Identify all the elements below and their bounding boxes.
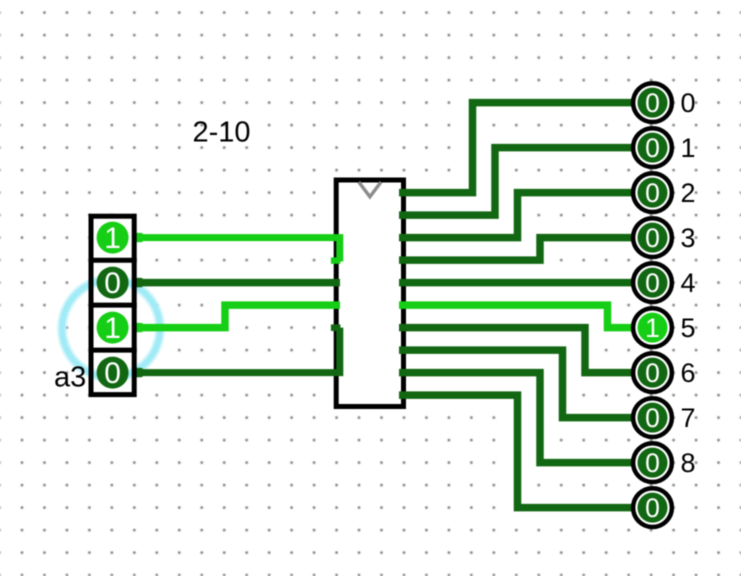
output pin 2 [633, 173, 672, 212]
svg-text:4: 4 [681, 268, 696, 298]
output pin 1 [633, 128, 672, 167]
node a1 wire start [135, 278, 144, 287]
node chip in4 stub [331, 324, 341, 331]
output pin 3 [633, 218, 672, 257]
output pin 9 [633, 488, 672, 527]
input pin 4 value 0 [97, 357, 129, 389]
output pin 8 [633, 443, 672, 482]
wire out6 chip to output pin 6 [399, 328, 634, 373]
svg-text:a3: a3 [54, 361, 86, 393]
svg-text:1: 1 [681, 133, 696, 163]
wire out7 chip to output pin 7 [399, 350, 634, 418]
wire a1 (value 0) from input pin 2 to chip in2 [135, 279, 340, 287]
svg-text:0: 0 [645, 133, 660, 163]
input pin 3 value 1 [97, 312, 129, 344]
svg-text:0: 0 [645, 358, 660, 388]
input pin 2 value 0 [97, 267, 129, 299]
wire a2 (value 1) from input pin 3 jog up to chip in3 [135, 305, 340, 328]
wire out4 chip to output pin 4 [399, 279, 634, 287]
svg-text:6: 6 [681, 358, 696, 388]
wire out3 chip to output pin 3 [399, 238, 634, 261]
wire a0 (value 1) from input pin 1 to chip in1 [135, 238, 340, 262]
wire out0 chip to output pin 0 [399, 103, 634, 193]
svg-text:2-10: 2-10 [193, 117, 251, 149]
svg-text:2: 2 [681, 178, 696, 208]
svg-text:1: 1 [645, 313, 660, 343]
wire a3 (value 0) from input pin 4 up along chip edge to chip in4 [135, 328, 340, 373]
chip orientation notch [359, 182, 381, 197]
selection halo around input pin a2 [62, 280, 160, 378]
wire out5 (value 1) chip to output pin 5 [399, 305, 634, 328]
output pin 7 [633, 398, 672, 437]
wire out2 chip to output pin 2 [399, 193, 634, 238]
svg-text:3: 3 [681, 223, 696, 253]
svg-text:0: 0 [645, 268, 660, 298]
svg-text:0: 0 [104, 267, 121, 300]
node a2 wire start [135, 323, 144, 332]
svg-text:8: 8 [681, 448, 696, 478]
svg-text:0: 0 [645, 178, 660, 208]
output pin 5 value 1 [633, 308, 672, 347]
node a3 wire start [135, 368, 144, 377]
output pin 4 [633, 263, 672, 302]
wire out8 chip to output pin 8 [399, 373, 634, 463]
wire out1 chip to output pin 1 [399, 148, 634, 216]
svg-text:1: 1 [104, 222, 121, 255]
svg-text:0: 0 [645, 493, 660, 523]
node chip in1 stub [331, 257, 341, 263]
node a0 wire start [135, 233, 144, 242]
svg-text:0: 0 [104, 357, 121, 390]
svg-text:1: 1 [104, 312, 121, 345]
svg-text:0: 0 [681, 88, 696, 118]
input pin group box [91, 216, 134, 394]
output pin 0 [633, 83, 672, 122]
svg-text:0: 0 [645, 223, 660, 253]
svg-text:0: 0 [645, 448, 660, 478]
chip U1 (2-10 decoder subcircuit body) [336, 180, 403, 407]
svg-text:5: 5 [681, 313, 696, 343]
output pin 6 [633, 353, 672, 392]
input pin 1 value 1 [97, 222, 129, 254]
svg-text:0: 0 [645, 403, 660, 433]
wire out9 chip to output pin 9 [399, 395, 634, 508]
svg-text:0: 0 [645, 88, 660, 118]
svg-text:7: 7 [681, 403, 696, 433]
